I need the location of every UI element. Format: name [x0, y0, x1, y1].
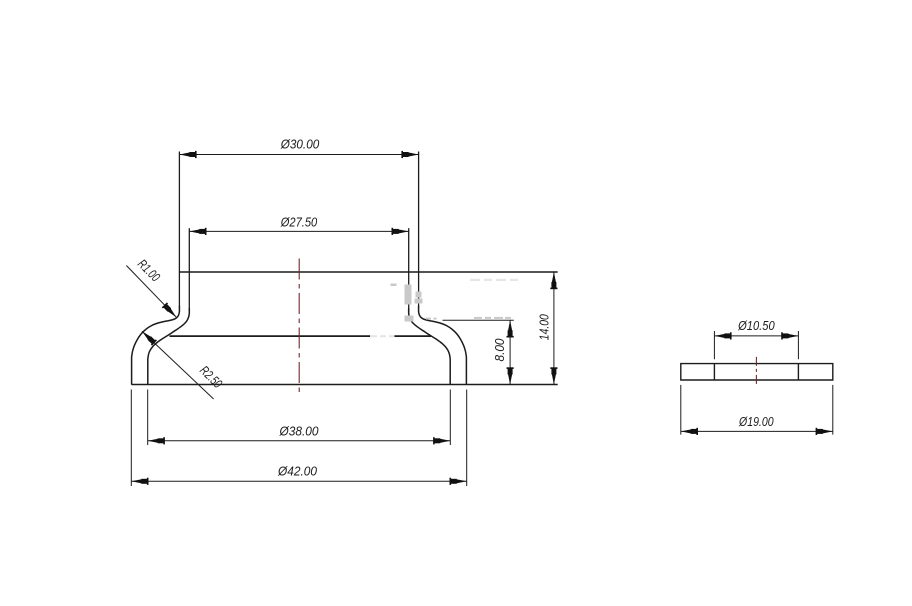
right outer S-curve	[419, 306, 467, 385]
svg-text:Ø10.50: Ø10.50	[737, 318, 775, 333]
washer inner line right (Ø10.5)	[797, 364, 799, 380]
extension lines Ø19.00	[681, 385, 833, 435]
top edge of part (extended right as extension line for 14.00)	[179, 271, 557, 273]
arrows 8.00	[507, 320, 514, 337]
left inner S-curve	[148, 308, 190, 385]
watermark dashes row2 (faint)	[470, 279, 518, 281]
bottom edge of part (extended right as extension line)	[131, 384, 557, 386]
arrows Ø10.50	[714, 332, 731, 339]
washer outline rectangle	[681, 364, 833, 380]
dimension line Ø27.50	[189, 230, 408, 232]
left outer wall (Ø30) + extension above	[178, 152, 180, 308]
left inner edge (Ø27.5) + extension above	[188, 228, 190, 311]
arrow R2.50 leader	[140, 329, 157, 346]
extension line for 8.00 step	[443, 319, 514, 321]
dimension line Ø10.50	[714, 335, 798, 337]
watermark dashes on flange line gap	[370, 335, 394, 337]
arrows Ø30.00	[179, 151, 196, 158]
svg-text:Ø42.00: Ø42.00	[277, 463, 318, 478]
watermark cross	[405, 316, 414, 322]
left outer S-curve (R1.00 / R2.50 transition)	[132, 306, 180, 385]
washer inner line left (Ø10.5)	[713, 364, 715, 380]
arrows Ø42.00	[131, 478, 148, 485]
arrows Ø19.00	[681, 428, 698, 435]
dimension line 14.00	[553, 272, 555, 385]
extension lines Ø10.50	[714, 331, 798, 359]
watermark bar2	[415, 299, 423, 304]
watermark bar	[405, 285, 412, 305]
svg-text:14.00: 14.00	[537, 314, 552, 341]
main view centerline	[298, 259, 300, 393]
right inner S-curve	[409, 308, 451, 385]
washer centerline	[755, 357, 757, 387]
extension lines Ø38.00	[148, 390, 451, 446]
svg-text:R1.00: R1.00	[135, 256, 164, 285]
arrows Ø27.50	[189, 228, 206, 235]
dimension line 8.00	[509, 320, 511, 384]
arrows Ø38.00	[148, 437, 165, 444]
svg-text:Ø19.00: Ø19.00	[738, 414, 774, 429]
right outer wall (Ø30) + extension above	[418, 152, 420, 308]
leader line R2.50	[142, 331, 214, 399]
dimension line Ø30.00	[179, 154, 418, 156]
watermark dashes row1	[426, 318, 431, 320]
svg-text:Ø27.50: Ø27.50	[280, 214, 318, 229]
dimension line Ø38.00	[148, 440, 451, 442]
right inner edge (Ø27.5) + extension above	[408, 228, 410, 311]
svg-text:Ø38.00: Ø38.00	[279, 423, 320, 438]
watermark square	[416, 292, 422, 298]
svg-text:Ø30.00: Ø30.00	[280, 137, 320, 152]
flange top edge line	[170, 335, 432, 337]
dimension line Ø19.00	[681, 430, 833, 432]
dimension line Ø42.00	[131, 480, 466, 482]
watermark dash	[391, 284, 397, 287]
arrows 14.00	[550, 272, 557, 289]
extension lines Ø42.00	[131, 390, 466, 487]
svg-text:8.00: 8.00	[492, 338, 507, 362]
leader line R1.00	[126, 266, 176, 318]
arrow R1.00 leader	[162, 302, 179, 319]
